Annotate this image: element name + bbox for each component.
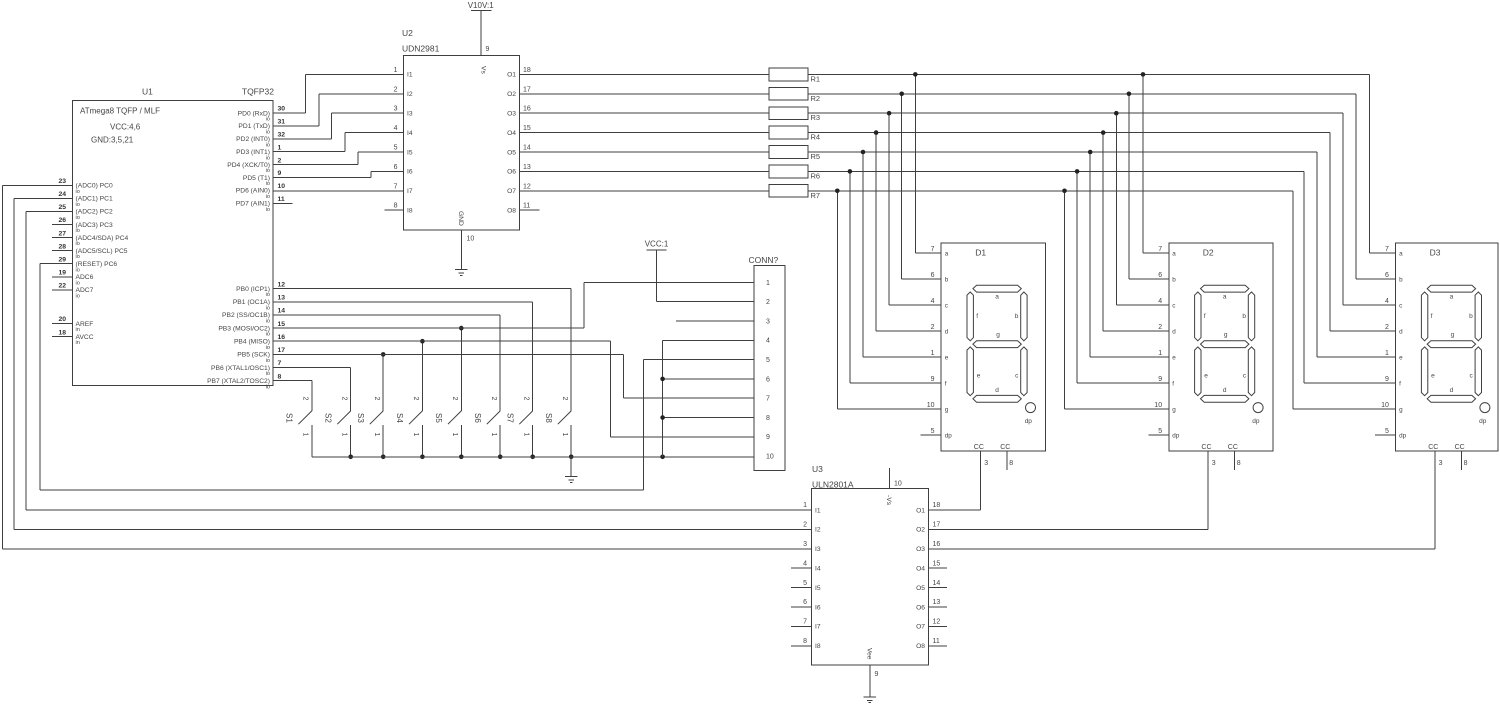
- svg-text:VCC:1: VCC:1: [645, 240, 669, 249]
- stub wire CONN pin 3: [676, 320, 754, 322]
- svg-text:CC: CC: [974, 444, 984, 451]
- svg-text:12: 12: [523, 183, 531, 190]
- stub wire U3 O8: [928, 645, 947, 647]
- svg-text:9: 9: [1158, 376, 1162, 383]
- svg-text:I5: I5: [815, 585, 821, 592]
- svg-text:dp: dp: [1172, 432, 1180, 439]
- svg-text:2: 2: [278, 157, 282, 164]
- svg-text:GND:3,5,21: GND:3,5,21: [91, 136, 134, 145]
- resistor R5: [769, 146, 820, 161]
- svg-text:io: io: [266, 358, 270, 364]
- D2 pin 8 CC: [1228, 444, 1241, 467]
- resistor R3: [769, 107, 820, 122]
- svg-text:dp: dp: [1399, 432, 1407, 439]
- svg-text:VCC:4,6: VCC:4,6: [110, 123, 141, 132]
- svg-text:1: 1: [278, 144, 282, 151]
- svg-text:io: io: [266, 332, 270, 338]
- wire R4 to D2 segment d: [1103, 133, 1169, 331]
- svg-text:(RESET) PC6: (RESET) PC6: [76, 261, 118, 268]
- U3 pin 5 I5: [803, 580, 821, 592]
- wire R2 to D2 segment b: [1129, 94, 1169, 279]
- svg-text:7: 7: [394, 183, 398, 190]
- svg-text:b: b: [1469, 313, 1473, 320]
- svg-text:PD4 (XCK/T0): PD4 (XCK/T0): [227, 162, 270, 169]
- svg-text:18: 18: [58, 329, 66, 336]
- svg-text:O2: O2: [507, 91, 516, 98]
- U3 pin 3 I3: [803, 541, 821, 553]
- U1 pin 23 (ADC0) PC0: [58, 178, 113, 195]
- wire R3 to D1 segment c: [889, 113, 941, 305]
- D2 pin 1 e: [1158, 350, 1176, 362]
- wire U2 O2 to R2: [519, 93, 769, 95]
- U3 pin 15 O4: [916, 560, 940, 572]
- svg-text:1: 1: [302, 433, 309, 437]
- svg-text:1: 1: [451, 433, 458, 437]
- wire U1 PD2 to U2 I3: [273, 113, 404, 139]
- svg-text:io: io: [266, 384, 270, 390]
- U1 pin 10 PD6 (AIN0): [236, 183, 285, 200]
- svg-text:d: d: [1399, 328, 1403, 335]
- wire U2 O6 to R6: [519, 170, 769, 172]
- stub wire U3 O6: [928, 606, 947, 608]
- svg-text:9: 9: [1385, 376, 1389, 383]
- svg-text:g: g: [1224, 332, 1228, 339]
- svg-text:2: 2: [1385, 324, 1389, 331]
- wire U2 O5 to R5: [519, 151, 769, 153]
- wire R5 to D2 segment e: [1090, 152, 1169, 357]
- svg-text:S7: S7: [505, 413, 514, 423]
- svg-text:O3: O3: [916, 546, 925, 553]
- stub wire U3 I5: [791, 587, 812, 589]
- U1 pin 9 PD5 (T1): [243, 170, 282, 187]
- wire U1 PD3 to U2 I4: [273, 133, 404, 152]
- svg-text:14: 14: [278, 308, 286, 315]
- stub wire U1 PC4: [52, 237, 73, 239]
- svg-text:io: io: [266, 155, 270, 161]
- svg-text:1: 1: [341, 433, 348, 437]
- junction CONN pin 8: [660, 415, 665, 420]
- svg-text:8: 8: [1009, 460, 1013, 467]
- IC U3 ULN2801A body: [812, 464, 929, 665]
- D2 pin 10 g: [1154, 402, 1176, 414]
- svg-text:a: a: [1399, 250, 1403, 257]
- switch S8: [544, 397, 571, 457]
- resistor R6: [769, 165, 820, 180]
- svg-text:5: 5: [766, 357, 770, 364]
- wire U2 O1 to R1: [519, 73, 769, 75]
- U1 pin 32 PD2 (INT0): [236, 132, 285, 149]
- svg-text:a: a: [995, 294, 999, 301]
- svg-text:8: 8: [394, 203, 398, 210]
- D3 segment g glyph: [1427, 341, 1475, 348]
- svg-text:9: 9: [278, 170, 282, 177]
- svg-text:O6: O6: [916, 604, 925, 611]
- junction R1/D2a: [1141, 72, 1146, 77]
- svg-text:R7: R7: [811, 191, 821, 200]
- wire R3 output row: [808, 112, 1343, 114]
- svg-text:23: 23: [58, 178, 66, 185]
- svg-text:11: 11: [523, 203, 530, 210]
- svg-text:io: io: [76, 254, 80, 260]
- svg-text:g: g: [945, 406, 949, 413]
- svg-text:4: 4: [1158, 298, 1162, 305]
- U1 pin 13 PB1 (OC1A): [233, 294, 285, 311]
- svg-text:e: e: [977, 373, 981, 380]
- svg-text:io: io: [266, 130, 270, 136]
- svg-text:CC: CC: [1228, 444, 1238, 451]
- power V10V:1: [468, 1, 494, 11]
- wire U3 O3 to D3 CC pin 3: [928, 451, 1434, 549]
- display D1 body: [941, 243, 1045, 451]
- svg-text:4: 4: [803, 560, 807, 567]
- U3 pin 2 I2: [803, 522, 821, 534]
- svg-text:5: 5: [931, 428, 935, 435]
- wire U1 PC0 to U3 I3: [3, 185, 812, 549]
- svg-text:io: io: [266, 181, 270, 187]
- wire U1 PB2 to S6: [273, 315, 500, 411]
- svg-text:12: 12: [278, 281, 286, 288]
- svg-text:2: 2: [1158, 324, 1162, 331]
- wire R5 to D3 segment e: [1317, 152, 1396, 357]
- svg-text:f: f: [976, 313, 978, 320]
- U1 pin 30 PD0 (RxD): [238, 106, 286, 123]
- svg-text:10: 10: [766, 454, 774, 461]
- svg-text:2: 2: [766, 299, 770, 306]
- D3 pin 7 a: [1385, 246, 1403, 258]
- svg-text:3: 3: [984, 460, 988, 467]
- svg-text:GND: GND: [457, 211, 464, 226]
- svg-text:I2: I2: [815, 527, 821, 534]
- D3 pin 10 g: [1381, 402, 1403, 414]
- U2 pin 13 O6: [507, 164, 531, 176]
- svg-text:26: 26: [58, 217, 66, 224]
- svg-text:io: io: [266, 142, 270, 148]
- svg-text:ATmega8 TQFP / MLF: ATmega8 TQFP / MLF: [80, 107, 160, 116]
- svg-text:1: 1: [373, 433, 380, 437]
- junction R2/D1b: [899, 92, 904, 97]
- resistor R7: [769, 184, 820, 199]
- wire U2 O7 to R7: [519, 190, 769, 192]
- svg-text:7: 7: [803, 619, 807, 626]
- svg-text:io: io: [76, 280, 80, 286]
- svg-text:b: b: [945, 276, 949, 283]
- svg-text:8: 8: [278, 373, 282, 380]
- D3 segment f glyph: [1421, 292, 1427, 341]
- D2 segment d glyph: [1201, 395, 1249, 402]
- wire U2 O4 to R4: [519, 132, 769, 134]
- wire R6 output row: [808, 170, 1304, 172]
- wire U3 Vee to ground: [869, 665, 871, 697]
- D1 pin 1 e: [931, 350, 949, 362]
- wire R4 to D3 segment d: [1330, 133, 1396, 331]
- svg-text:io: io: [76, 202, 80, 208]
- svg-text:R1: R1: [811, 74, 821, 83]
- junction S5 bus: [459, 455, 464, 460]
- junction R7/D1g: [835, 189, 840, 194]
- wire R6 to D1 segment f: [850, 171, 941, 383]
- svg-text:io: io: [76, 189, 80, 195]
- svg-text:4: 4: [1385, 298, 1389, 305]
- svg-text:2: 2: [523, 397, 530, 401]
- svg-text:16: 16: [933, 541, 941, 548]
- junction bus / ground vertical: [660, 455, 665, 460]
- D1 pin 9 f: [931, 376, 947, 388]
- svg-text:O6: O6: [507, 169, 516, 176]
- U1 pin 11 PD7 (AIN1): [236, 196, 285, 213]
- U3 pin 10 -Vs stub wire: [888, 468, 890, 489]
- svg-text:ULN2801A: ULN2801A: [812, 480, 854, 490]
- U3 pin 12 O7: [916, 619, 940, 631]
- D1 CC pin 8 stub wire: [1006, 451, 1008, 470]
- svg-text:15: 15: [523, 125, 531, 132]
- switch S3: [356, 397, 383, 457]
- D3 pin 1 e: [1385, 350, 1403, 362]
- switch S7: [505, 397, 532, 457]
- D1 pin 4 c: [931, 298, 948, 310]
- svg-text:I6: I6: [815, 604, 821, 611]
- wire U1 PD4 to U2 I5: [273, 152, 404, 165]
- switch S2: [323, 397, 350, 457]
- D2 segment a glyph: [1201, 285, 1249, 292]
- wire R7 output row: [808, 190, 1293, 192]
- U1 pin 17 PB5 (SCK): [237, 347, 285, 364]
- svg-text:io: io: [266, 305, 270, 311]
- wire U1 PC1 to U3 I2: [14, 198, 812, 529]
- ground below U3: [864, 697, 877, 703]
- svg-text:I4: I4: [815, 566, 821, 573]
- display D3 body: [1396, 243, 1499, 451]
- wire R3 to D3 segment c: [1343, 113, 1395, 305]
- svg-text:b: b: [1242, 313, 1246, 320]
- stub wire U3 O7: [928, 625, 947, 627]
- svg-text:S5: S5: [434, 413, 443, 423]
- svg-text:d: d: [1172, 328, 1176, 335]
- wire U2 pin 10 to ground: [460, 230, 462, 269]
- U1 pin 12 PB0 (ICP1): [236, 281, 285, 298]
- svg-text:10: 10: [1154, 402, 1162, 409]
- U2 pin 11 O8: [507, 203, 530, 215]
- svg-text:17: 17: [278, 347, 286, 354]
- svg-text:7: 7: [278, 360, 282, 367]
- U3 pin 4 I4: [803, 560, 821, 572]
- svg-text:U1: U1: [142, 87, 153, 97]
- U3 pin 6 I6: [803, 599, 821, 611]
- svg-text:7: 7: [766, 396, 770, 403]
- D3 pin 4 c: [1385, 298, 1402, 310]
- svg-text:CC: CC: [1000, 444, 1010, 451]
- D2 segment f glyph: [1195, 292, 1201, 341]
- stub wire U3 O5: [928, 587, 947, 589]
- U3 pin 16 O3: [916, 541, 940, 553]
- svg-text:1: 1: [766, 280, 770, 287]
- D1 pin 10 g: [927, 402, 949, 414]
- svg-text:9: 9: [486, 46, 490, 53]
- svg-text:O2: O2: [916, 527, 925, 534]
- wire U1 PC2 to U3 I1: [26, 211, 811, 510]
- wire R2 to D1 segment b: [902, 94, 942, 279]
- svg-text:PB4 (MISO): PB4 (MISO): [234, 339, 270, 346]
- switch S4: [395, 397, 422, 457]
- svg-text:4: 4: [931, 298, 935, 305]
- svg-text:1: 1: [561, 433, 568, 437]
- U3 pin 18 O1: [916, 502, 940, 514]
- svg-text:13: 13: [933, 599, 941, 606]
- svg-text:3: 3: [1212, 460, 1216, 467]
- svg-text:7: 7: [1158, 246, 1162, 253]
- svg-text:15: 15: [933, 560, 941, 567]
- svg-text:I4: I4: [407, 130, 413, 137]
- svg-text:O5: O5: [916, 585, 925, 592]
- wire R4 to D1 segment d: [876, 133, 941, 331]
- U2 pin 2 I2: [394, 86, 413, 98]
- display D2 body: [1169, 243, 1273, 451]
- svg-text:f: f: [1172, 380, 1174, 387]
- svg-text:a: a: [1450, 294, 1454, 301]
- D2 pin 5 dp: [1158, 428, 1180, 440]
- svg-text:io: io: [266, 168, 270, 174]
- svg-text:(ADC1) PC1: (ADC1) PC1: [76, 196, 113, 203]
- wire U1 PB3 to S5: [460, 328, 462, 411]
- D2 segment c glyph: [1248, 347, 1254, 396]
- svg-text:e: e: [945, 354, 949, 361]
- svg-text:a: a: [1172, 250, 1176, 257]
- svg-text:1: 1: [490, 433, 497, 437]
- svg-text:2: 2: [373, 397, 380, 401]
- wire R2 to D3 segment b: [1356, 94, 1396, 279]
- stub wire U1 PC5: [52, 250, 73, 252]
- svg-text:PB1 (OC1A): PB1 (OC1A): [233, 299, 270, 306]
- svg-text:6: 6: [766, 376, 770, 383]
- svg-text:R4: R4: [811, 133, 821, 142]
- svg-text:io: io: [76, 267, 80, 273]
- svg-text:a: a: [945, 250, 949, 257]
- svg-text:I8: I8: [407, 208, 413, 215]
- D3 pin 5 dp: [1385, 428, 1407, 440]
- wire U1 PD1 to U2 I2: [273, 94, 404, 126]
- junction R1/D1a: [913, 72, 918, 77]
- junction S6 bus: [498, 455, 503, 460]
- wire U1 PB6 to S2: [273, 368, 351, 411]
- svg-text:22: 22: [58, 283, 66, 290]
- svg-text:Vee: Vee: [866, 648, 873, 660]
- wire U1 PB5 row to jog: [273, 353, 623, 355]
- resistor R1: [769, 68, 820, 83]
- switch S5: [434, 397, 461, 457]
- D1 segment labels: [976, 294, 1019, 395]
- D3 pin 8 CC: [1455, 444, 1468, 467]
- svg-text:28: 28: [58, 243, 66, 250]
- svg-text:S1: S1: [285, 413, 294, 423]
- svg-text:in: in: [76, 327, 80, 333]
- junction R3/D1c: [887, 111, 892, 116]
- svg-text:24: 24: [58, 191, 66, 198]
- svg-text:5: 5: [1385, 428, 1389, 435]
- wire PB4 jog to CONN pin 9: [611, 341, 754, 437]
- svg-text:20: 20: [58, 316, 66, 323]
- svg-text:O5: O5: [507, 149, 516, 156]
- U2 pin 17 O2: [507, 86, 531, 98]
- svg-text:V10V:1: V10V:1: [468, 1, 494, 10]
- U3 pin 7 I7: [803, 619, 821, 631]
- svg-text:32: 32: [278, 132, 286, 139]
- ground below U2: [455, 270, 468, 276]
- U2 pin 5 I5: [394, 145, 413, 157]
- svg-text:2: 2: [412, 397, 419, 401]
- D3 segment e glyph: [1421, 347, 1427, 396]
- stub wire U3 I7: [791, 625, 812, 627]
- svg-text:U2: U2: [402, 28, 413, 38]
- svg-text:13: 13: [523, 164, 531, 171]
- D3 segment c glyph: [1475, 347, 1481, 396]
- U3 pin 14 O5: [916, 580, 940, 592]
- U1 pin 31 PD1 (TxD): [238, 119, 285, 136]
- svg-text:11: 11: [278, 196, 285, 203]
- svg-text:e: e: [1399, 354, 1403, 361]
- wire U1 PD6 to U2 I7: [273, 190, 404, 192]
- svg-text:1: 1: [931, 350, 935, 357]
- svg-text:10: 10: [1381, 402, 1389, 409]
- junction R2/D2b: [1127, 92, 1132, 97]
- U1 pin 15 PB3 (MOSI/OC2): [218, 321, 285, 338]
- D1 pin 3 CC: [974, 444, 988, 467]
- U3 pin 17 O2: [916, 522, 940, 534]
- svg-text:10: 10: [467, 236, 475, 243]
- svg-text:e: e: [1204, 373, 1208, 380]
- junction R5/D2e: [1088, 150, 1093, 155]
- junction PB4/S4: [420, 339, 425, 344]
- U3 pin 1 I1: [803, 502, 821, 514]
- stub wire U3 I4: [791, 567, 812, 569]
- svg-text:U3: U3: [812, 464, 823, 474]
- svg-text:f: f: [1431, 313, 1433, 320]
- svg-text:I3: I3: [407, 111, 413, 118]
- D1 segment c glyph: [1021, 347, 1027, 396]
- wire switch common bus to CONN pin 10: [312, 456, 754, 458]
- svg-text:1: 1: [803, 502, 807, 509]
- svg-text:I3: I3: [815, 546, 821, 553]
- wire R7 to D3 segment g: [1293, 191, 1395, 409]
- svg-text:D2: D2: [1203, 248, 1214, 258]
- svg-text:4: 4: [766, 338, 770, 345]
- svg-text:in: in: [76, 340, 80, 346]
- stub wire U1 AVCC: [52, 336, 73, 338]
- D2 pin 9 f: [1158, 376, 1174, 388]
- svg-text:2: 2: [490, 397, 497, 401]
- svg-text:2: 2: [451, 397, 458, 401]
- junction R6/D2f: [1075, 169, 1080, 174]
- wire R7 to D2 segment g: [1065, 191, 1169, 409]
- svg-text:I1: I1: [407, 72, 413, 79]
- D1 pin 6 b: [931, 272, 949, 284]
- D2 decimal point glyph: [1253, 403, 1263, 413]
- wire VCC:1 to CONN pin 2: [657, 250, 754, 302]
- svg-text:b: b: [1015, 313, 1019, 320]
- svg-text:PB6 (XTAL1/OSC1): PB6 (XTAL1/OSC1): [211, 365, 270, 372]
- svg-text:dp: dp: [1252, 418, 1260, 425]
- D1 segment b glyph: [1021, 292, 1027, 341]
- stub wire U3 I6: [791, 606, 812, 608]
- svg-text:io: io: [266, 319, 270, 325]
- svg-text:9: 9: [931, 376, 935, 383]
- svg-text:CONN?: CONN?: [749, 255, 779, 265]
- resistor R2: [769, 87, 820, 102]
- U1 pin 28 (ADC5/SCL) PC5: [58, 243, 127, 260]
- svg-text:I7: I7: [407, 188, 413, 195]
- svg-text:7: 7: [931, 246, 935, 253]
- U1 pin 20 AREF: [58, 316, 93, 333]
- resistor R4: [769, 126, 820, 141]
- stub wire U2 I8: [384, 209, 403, 211]
